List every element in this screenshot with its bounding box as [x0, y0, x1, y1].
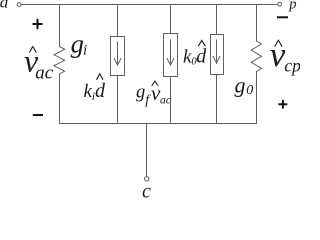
resistor g_0: [251, 41, 261, 72]
svg-text:d: d: [196, 46, 207, 68]
current source k_i d box U1: [111, 37, 125, 76]
svg-text:g: g: [136, 83, 145, 103]
wire branch g_i top: [59, 5, 61, 47]
svg-text:i: i: [83, 43, 87, 59]
wire branch g_0 bottom: [256, 72, 258, 124]
minus sign v_cp: [277, 16, 288, 18]
node p terminal circle: [278, 2, 282, 6]
resistor g_i: [54, 47, 65, 75]
label k_i d: [84, 74, 107, 103]
wire top rail a to p: [21, 4, 277, 6]
svg-text:ac: ac: [35, 63, 54, 84]
plus sign v_cp: [278, 100, 287, 109]
svg-text:d: d: [95, 80, 106, 102]
wire branch k_0 top: [216, 5, 218, 35]
svg-text:ac: ac: [160, 94, 171, 106]
wire branch g_f bottom: [170, 77, 172, 124]
label g_i: [71, 29, 88, 59]
wire bottom rail: [60, 123, 257, 125]
svg-text:p: p: [288, 0, 296, 12]
svg-text:a: a: [0, 0, 8, 11]
label g_f v_ac: [136, 81, 171, 108]
current source g_f v_ac box U2: [164, 34, 178, 77]
current source k_i d arrow: [114, 42, 121, 65]
current source k_0 d arrow: [213, 40, 220, 63]
wire branch g_f top: [170, 5, 172, 34]
label v_ac: [24, 43, 54, 84]
wire branch g_i bottom: [59, 74, 61, 124]
plus sign v_ac: [33, 19, 43, 29]
label v_cp: [270, 35, 301, 76]
label k_0 d: [183, 40, 207, 67]
label g_0: [235, 72, 254, 98]
wire branch k_i bottom: [117, 76, 119, 124]
wire branch k_0 bottom: [216, 75, 218, 124]
current source g_f v_ac arrow: [167, 40, 174, 65]
svg-text:g: g: [235, 72, 246, 97]
node c terminal circle: [145, 177, 149, 181]
svg-text:cp: cp: [284, 56, 300, 76]
svg-text:0: 0: [246, 83, 253, 98]
minus sign v_ac: [33, 114, 43, 116]
svg-text:g: g: [71, 29, 84, 59]
wire branch g_0 top: [256, 5, 258, 42]
node a terminal circle: [17, 3, 21, 7]
wire node c stub: [146, 124, 148, 177]
wire branch k_i top: [117, 5, 119, 37]
svg-text:c: c: [142, 181, 151, 203]
current source k_0 d box U3: [211, 35, 224, 75]
